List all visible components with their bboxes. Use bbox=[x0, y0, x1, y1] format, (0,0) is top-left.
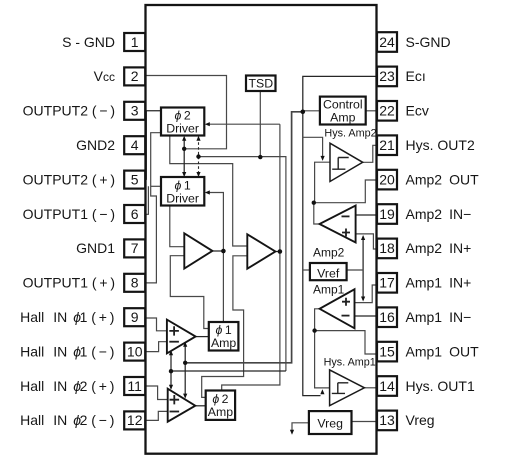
svg-text:Amp1 OUT: Amp1 OUT bbox=[406, 343, 480, 359]
svg-text:S-GND: S-GND bbox=[406, 34, 451, 50]
svg-text:10: 10 bbox=[127, 343, 143, 359]
svg-text:ϕ 2: ϕ 2 bbox=[175, 109, 191, 123]
svg-text:Amp1: Amp1 bbox=[313, 282, 345, 296]
svg-text:GND1: GND1 bbox=[76, 240, 115, 256]
svg-text:17: 17 bbox=[379, 275, 395, 291]
svg-text:OUTPUT1 ( + ): OUTPUT1 ( + ) bbox=[23, 275, 115, 291]
svg-text:ϕ 1: ϕ 1 bbox=[216, 323, 232, 337]
svg-text:22: 22 bbox=[379, 103, 395, 119]
svg-text:ϕ 2: ϕ 2 bbox=[212, 392, 228, 406]
svg-text:Amp1 IN+: Amp1 IN+ bbox=[406, 275, 472, 291]
svg-text:19: 19 bbox=[379, 206, 395, 222]
svg-text:TSD: TSD bbox=[248, 77, 273, 91]
svg-text:Control: Control bbox=[323, 97, 363, 111]
svg-text:21: 21 bbox=[379, 137, 395, 153]
svg-text:24: 24 bbox=[379, 34, 395, 50]
svg-text:Amp: Amp bbox=[211, 336, 236, 350]
svg-text:Amp: Amp bbox=[330, 110, 355, 124]
svg-text:Ecv: Ecv bbox=[406, 103, 429, 119]
svg-text:ϕ 1: ϕ 1 bbox=[175, 179, 191, 193]
svg-text:S - GND: S - GND bbox=[62, 34, 115, 50]
svg-text:13: 13 bbox=[379, 412, 395, 428]
svg-text:Amp2: Amp2 bbox=[313, 245, 345, 259]
svg-text:11: 11 bbox=[127, 378, 142, 394]
svg-text:15: 15 bbox=[379, 343, 395, 359]
svg-text:OUTPUT2 ( + ): OUTPUT2 ( + ) bbox=[23, 171, 115, 187]
svg-text:1: 1 bbox=[131, 34, 139, 50]
svg-text:Amp2 IN+: Amp2 IN+ bbox=[406, 240, 472, 256]
svg-text:18: 18 bbox=[379, 240, 395, 256]
svg-text:OUTPUT2 ( − ): OUTPUT2 ( − ) bbox=[23, 103, 115, 119]
svg-text:Amp2 IN−: Amp2 IN− bbox=[406, 206, 472, 222]
svg-text:Vcc: Vcc bbox=[94, 68, 115, 84]
svg-text:7: 7 bbox=[131, 240, 139, 256]
svg-text:GND2: GND2 bbox=[76, 137, 115, 153]
svg-text:Amp2 OUT: Amp2 OUT bbox=[406, 171, 480, 187]
svg-text:Hys. Amp2: Hys. Amp2 bbox=[324, 127, 376, 139]
svg-text:Ecı: Ecı bbox=[406, 68, 426, 84]
svg-text:Vreg: Vreg bbox=[317, 417, 343, 431]
svg-text:OUTPUT1 ( − ): OUTPUT1 ( − ) bbox=[23, 206, 115, 222]
svg-text:14: 14 bbox=[379, 378, 395, 394]
svg-text:20: 20 bbox=[379, 171, 395, 187]
svg-text:Vreg: Vreg bbox=[406, 412, 435, 428]
svg-text:6: 6 bbox=[131, 206, 139, 222]
svg-text:Vref: Vref bbox=[317, 267, 340, 281]
svg-text:3: 3 bbox=[131, 103, 139, 119]
svg-text:2: 2 bbox=[131, 68, 139, 84]
svg-text:4: 4 bbox=[131, 137, 139, 153]
svg-text:12: 12 bbox=[127, 412, 143, 428]
svg-text:9: 9 bbox=[131, 309, 139, 325]
svg-text:Driver: Driver bbox=[166, 122, 199, 136]
svg-text:23: 23 bbox=[379, 68, 395, 84]
svg-text:Amp: Amp bbox=[208, 405, 233, 419]
svg-text:Hys. Amp1: Hys. Amp1 bbox=[324, 356, 376, 368]
svg-text:Driver: Driver bbox=[166, 192, 199, 206]
svg-text:16: 16 bbox=[379, 309, 395, 325]
svg-text:5: 5 bbox=[131, 171, 139, 187]
svg-text:Hys. OUT2: Hys. OUT2 bbox=[406, 137, 475, 153]
svg-text:8: 8 bbox=[131, 275, 139, 291]
svg-text:Hys. OUT1: Hys. OUT1 bbox=[406, 378, 475, 394]
svg-text:Amp1 IN−: Amp1 IN− bbox=[406, 309, 472, 325]
